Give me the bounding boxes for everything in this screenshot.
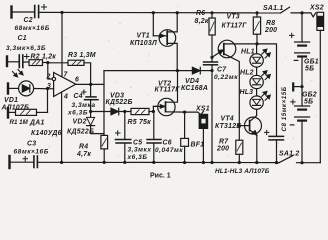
svg-text:C1: C1: [18, 35, 27, 42]
svg-text:R2 1,2к: R2 1,2к: [31, 54, 57, 61]
svg-text:200: 200: [264, 27, 277, 34]
node: output junction: [89, 83, 92, 86]
label HL1: [241, 49, 255, 56]
pin 7 wire: [61, 13, 63, 77]
svg-text:5Б: 5Б: [304, 99, 313, 106]
svg-text:Рис. 1: Рис. 1: [150, 173, 171, 180]
label HL2: [240, 69, 254, 76]
node: C7 junction: [210, 69, 213, 72]
svg-text:2: 2: [46, 73, 51, 80]
node: inverting input net: [46, 61, 49, 64]
caption: [150, 168, 270, 180]
capacitor C3: [10, 156, 38, 168]
svg-text:68мк×16Б: 68мк×16Б: [15, 25, 50, 32]
svg-text:R7: R7: [219, 138, 229, 145]
svg-text:КП103Л: КП103Л: [130, 40, 157, 47]
label VD4: [181, 78, 208, 92]
label C4: [67, 93, 96, 116]
wire: junction down to HL1: [256, 44, 258, 54]
node: R6 tap on rail: [210, 11, 213, 14]
svg-text:HL2: HL2: [240, 69, 254, 76]
wire: b1 to XS1: [185, 111, 204, 115]
battery GB2: [290, 87, 309, 163]
transistor VT3 (UJT): [212, 40, 257, 140]
svg-text:XS2: XS2: [309, 5, 324, 12]
node: C5 on rail: [123, 161, 126, 164]
label R8: [264, 20, 277, 34]
svg-text:68мк×16Б: 68мк×16Б: [14, 149, 49, 156]
label R5: [128, 119, 152, 126]
wire: op-amp output: [76, 83, 104, 85]
svg-text:0,22мк: 0,22мк: [214, 74, 238, 81]
node: VT1/VT2 tap: [176, 69, 179, 72]
resistor R4: [101, 135, 108, 162]
resistor R7: [236, 140, 243, 162]
label XS2: [309, 5, 324, 12]
svg-text:R1 1М: R1 1М: [10, 119, 29, 126]
node: GB2 on rail: [300, 161, 303, 164]
wire: rail after SA1.1: [291, 12, 311, 14]
label DA1: [29, 120, 62, 137]
wire: HL3 to VT4 collector: [256, 109, 258, 115]
capacitor C6: [147, 112, 161, 163]
label R1 1M: [10, 119, 29, 126]
wire: bottom supply rail: [37, 161, 279, 163]
svg-text:R3 1,3М: R3 1,3М: [68, 52, 96, 59]
wire: C7 node to bottom rail: [211, 71, 213, 163]
label C7: [214, 66, 238, 81]
svg-text:C5: C5: [133, 139, 142, 146]
node: VT4 base / R7: [238, 124, 241, 127]
svg-text:C6: C6: [163, 139, 172, 146]
node: XS1 on rail: [202, 161, 205, 164]
node: R5/C6/emitter junction: [152, 110, 155, 113]
wire: bottom rail right segment: [297, 162, 321, 164]
svg-text:BF1: BF1: [191, 141, 205, 148]
svg-text:GБ1: GБ1: [304, 58, 319, 65]
svg-text:VT4: VT4: [221, 116, 234, 123]
wire: node down to pin 2: [48, 63, 52, 79]
svg-text:C2: C2: [24, 17, 33, 24]
node: on rail: [210, 161, 213, 164]
svg-text:SA1.2: SA1.2: [279, 150, 299, 157]
svg-text:х6,3Б: х6,3Б: [127, 154, 148, 161]
LED HL3: [250, 91, 270, 109]
pin label 2: [46, 73, 51, 80]
connector XS2: [311, 12, 324, 162]
node: VT4 emitter on rail: [255, 161, 258, 164]
resistor R6: [209, 13, 215, 58]
connector XS1: [199, 114, 207, 162]
svg-text:КТ117Г: КТ117Г: [222, 22, 248, 29]
transistor VT2 (UJT): [153, 71, 184, 116]
label R4: [76, 143, 91, 158]
transistor VT1 (JFET): [153, 13, 177, 71]
label C2: [15, 17, 50, 32]
resistor R5: [131, 108, 153, 114]
wire: HL1 to HL2: [256, 67, 258, 75]
label C8 (rotated): [281, 86, 288, 131]
svg-text:R5 75к: R5 75к: [128, 119, 152, 126]
node: VT1 source tap on rail: [176, 11, 179, 14]
label GB2: [302, 92, 317, 106]
label R2 1,2k: [31, 54, 57, 61]
svg-text:HL1-HL3 АЛ107Б: HL1-HL3 АЛ107Б: [215, 168, 270, 175]
svg-text:6: 6: [75, 77, 79, 84]
pin label 7: [64, 72, 69, 79]
photodiode VD1: [8, 70, 34, 96]
label R3 1,3M: [68, 52, 96, 59]
wire: pin3 node down to R1: [47, 89, 49, 113]
wire: C4 to VD2: [90, 100, 92, 118]
label C1: [6, 35, 46, 52]
svg-text:200: 200: [216, 146, 229, 153]
label R6: [195, 10, 209, 25]
svg-text:HL1: HL1: [241, 49, 255, 56]
label VD2: [67, 118, 94, 135]
svg-text:XS1: XS1: [195, 105, 210, 112]
svg-text:R8: R8: [266, 20, 275, 27]
svg-text:R4: R4: [79, 143, 88, 150]
wire: top supply rail: [39, 11, 281, 14]
svg-text:VD1: VD1: [4, 97, 18, 104]
node: R8 tap on rail: [255, 11, 258, 14]
wire: terminal to C2: [12, 11, 35, 13]
switch SA1.2: [279, 156, 293, 163]
label GB1: [304, 58, 319, 72]
svg-text:КТ117Г: КТ117Г: [155, 86, 181, 93]
pin label 6: [75, 77, 79, 84]
wire: R2 to inverting input node: [43, 62, 48, 64]
svg-text:VD4: VD4: [185, 78, 199, 85]
scan speckle noise: [3, 5, 319, 177]
svg-text:С8 15мк×15Б: С8 15мк×15Б: [281, 86, 288, 131]
svg-text:3,3мка: 3,3мка: [72, 102, 96, 109]
label VD1: [1, 97, 30, 112]
svg-text:3,3мкх: 3,3мкх: [128, 146, 152, 153]
wire: jog to VT2 emitter: [153, 106, 158, 111]
label XS1: [195, 105, 210, 112]
node: C5 tap: [123, 110, 126, 113]
resistor R1: [8, 108, 48, 118]
wire: HL2 to HL3: [256, 89, 258, 96]
label R7: [216, 138, 229, 152]
terminal: battery tap: [293, 83, 303, 90]
pin label 3: [47, 83, 51, 90]
svg-text:5Б: 5Б: [305, 66, 314, 73]
svg-text:VD2: VD2: [73, 118, 87, 125]
transistor VT4: [239, 116, 261, 163]
svg-text:C7: C7: [217, 66, 227, 73]
label HL3: [240, 89, 254, 96]
svg-text:VT3: VT3: [227, 14, 240, 21]
diode VD3: [111, 108, 131, 115]
wire: C1 to R2: [23, 61, 29, 63]
label C6: [155, 139, 183, 154]
label VT4: [215, 116, 241, 131]
svg-text:КС168А: КС168А: [181, 85, 208, 92]
svg-text:К140УД6: К140УД6: [31, 130, 62, 137]
svg-text:0,047мк: 0,047мк: [155, 147, 183, 154]
label SA1.1: [263, 5, 283, 12]
capacitor C5: [115, 112, 131, 163]
wire: VD1 to pin 3: [34, 88, 54, 90]
switch SA1.1: [281, 7, 290, 13]
svg-text:C4: C4: [74, 93, 83, 100]
op-amp DA1: [52, 73, 76, 97]
wire: R3 to output node: [84, 63, 91, 85]
diode VD4: [192, 67, 212, 74]
wire: b2 bus to C8: [257, 44, 277, 136]
node: R7 on rail: [238, 161, 241, 164]
battery GB1: [290, 13, 310, 87]
diode VD2: [87, 117, 95, 125]
svg-text:АЛ107Б: АЛ107Б: [1, 104, 30, 111]
node: pin 3 net: [46, 87, 49, 90]
capacitor C1: [19, 54, 29, 67]
node: R8/b2/HL1 junction: [255, 42, 258, 45]
label VT1: [130, 33, 157, 48]
wire: VD4 bus y70.6: [104, 70, 192, 72]
LED HL2: [250, 71, 270, 89]
wire: node to R3: [48, 62, 68, 64]
label C5: [127, 139, 152, 161]
wire: VD2 cathode to R4 top: [91, 126, 104, 136]
node: C8 on rail: [275, 161, 278, 164]
wire: output riser x104: [103, 71, 105, 136]
capacitor C2: [35, 5, 47, 18]
svg-text:8,2к: 8,2к: [195, 18, 209, 25]
node: C6 on rail: [152, 161, 155, 164]
sounder BF1: [181, 112, 189, 162]
capacitor C8: [265, 130, 284, 162]
resistor R8: [253, 13, 260, 44]
pin label 4: [63, 94, 68, 101]
node: VT1 gate tap on rail: [152, 11, 155, 14]
node: pin7 tap on rail: [60, 11, 63, 14]
node: GB1 tap on rail: [300, 11, 303, 14]
capacitor C7: [204, 57, 218, 70]
label VT2: [155, 81, 181, 94]
terminal: left contact of C1 line: [6, 57, 8, 67]
svg-text:КД522Б: КД522Б: [106, 99, 133, 106]
svg-text:4: 4: [63, 94, 68, 101]
terminal: left contact of C2 line: [10, 7, 12, 18]
svg-text:C3: C3: [27, 140, 36, 147]
node: BF1 on rail: [183, 161, 186, 164]
svg-text:R6: R6: [196, 10, 205, 17]
node: VT3 emitter tap: [210, 56, 213, 59]
label SA1.2: [279, 150, 299, 157]
wire: terminal to C1: [7, 61, 19, 63]
label BF1: [191, 141, 205, 148]
resistor R3: [68, 60, 84, 65]
svg-text:КТ312Б: КТ312Б: [215, 123, 241, 130]
pin 4 wire to bottom rail: [61, 92, 63, 162]
svg-text:HL3: HL3: [240, 89, 254, 96]
svg-text:ДА1: ДА1: [29, 120, 45, 127]
svg-text:х6,3Б: х6,3Б: [67, 109, 88, 116]
svg-text:SA1.1: SA1.1: [263, 5, 283, 12]
resistor R2: [29, 60, 43, 66]
capacitor C4: [82, 84, 98, 99]
node: pin4 on bottom rail: [60, 161, 63, 164]
svg-text:GБ2: GБ2: [302, 92, 317, 99]
wire: VD3 anode wire: [91, 111, 111, 113]
node: VD2/VD3 anode node: [89, 110, 92, 113]
svg-text:3,3мк×6,3Б: 3,3мк×6,3Б: [6, 45, 46, 52]
node: R4 on bottom rail: [103, 161, 106, 164]
label C3: [14, 140, 49, 155]
label VD3: [106, 93, 133, 107]
svg-text:VT1: VT1: [137, 33, 150, 40]
node: BF1 tap: [183, 111, 186, 114]
label VT3: [222, 14, 248, 30]
svg-text:4,7к: 4,7к: [76, 151, 91, 158]
LED HL1: [250, 49, 270, 67]
